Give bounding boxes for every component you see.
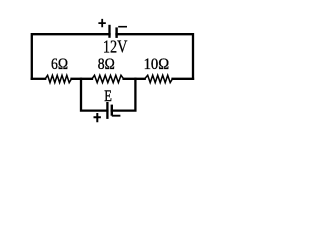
wire loop right vertical	[112, 79, 136, 111]
svg-text:6Ω: 6Ω	[51, 56, 68, 73]
battery B1 long plate (+)	[108, 25, 110, 38]
battery E long plate (+)	[106, 102, 108, 119]
wire top-right segment	[117, 34, 194, 79]
plus sign of B1	[98, 19, 105, 27]
wire top-left segment	[32, 34, 110, 79]
svg-text:E: E	[104, 88, 112, 105]
resistor R1 6ohm	[45, 75, 71, 82]
resistor R2 8ohm	[92, 75, 124, 82]
wire loop left vertical	[81, 79, 107, 111]
wire middle right	[173, 78, 194, 80]
wire between R2 and R3 with junction B	[124, 78, 145, 80]
wire middle left	[32, 78, 45, 80]
svg-text:12V: 12V	[103, 37, 128, 57]
resistor R3 10ohm	[145, 75, 173, 82]
battery B1 short plate (-)	[115, 27, 117, 38]
wire between R1 and R2 with junction A	[72, 78, 93, 80]
plus sign of E	[94, 113, 101, 122]
minus sign of B1	[118, 26, 127, 28]
battery E short plate (-)	[111, 105, 113, 116]
svg-text:10Ω: 10Ω	[144, 56, 170, 73]
svg-text:8Ω: 8Ω	[98, 56, 115, 73]
minus sign of E	[112, 115, 121, 117]
